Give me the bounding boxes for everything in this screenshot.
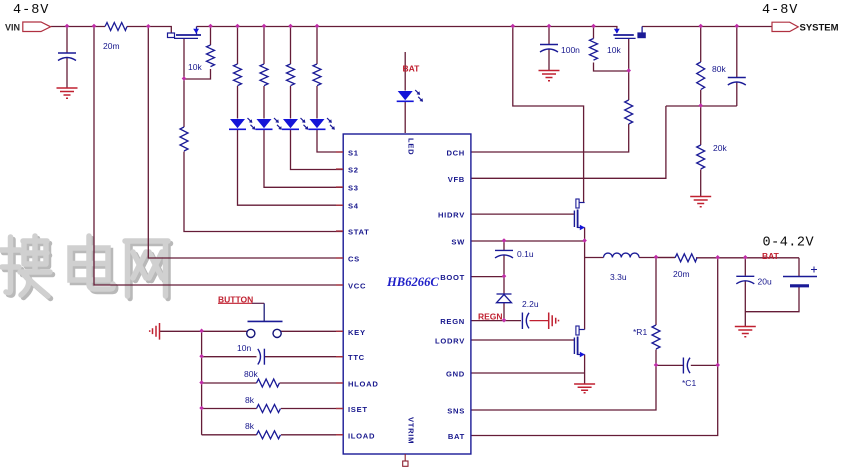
svg-text:REGN: REGN xyxy=(478,312,503,322)
wire BOOT to diode cathode xyxy=(503,277,505,294)
resistor string3 xyxy=(287,64,295,86)
wire HIDRV to high-side FET gate xyxy=(471,213,574,215)
wire cap C5 bottom to FB node xyxy=(736,82,738,106)
wire top rail VIN to 20m resistor xyxy=(51,26,105,28)
capacitor C1 input xyxy=(58,53,76,61)
capacitor 20u output xyxy=(736,276,754,284)
resistor R9 gate-DCH xyxy=(625,100,633,124)
resistor 8k ILOAD xyxy=(257,431,281,439)
resistor 20m sense xyxy=(675,254,697,262)
wire R9 bottom to DCH xyxy=(471,124,629,152)
svg-text:*R1: *R1 xyxy=(633,327,647,337)
svg-text:KEY: KEY xyxy=(348,328,366,337)
wire *R1 top xyxy=(655,258,657,326)
resistor string2 xyxy=(260,64,268,86)
svg-text:REGN: REGN xyxy=(440,317,465,326)
IC xyxy=(336,134,471,466)
resistor string4 xyxy=(313,64,321,86)
svg-text:20u: 20u xyxy=(758,277,772,287)
ground input cap xyxy=(57,88,78,98)
wire HLOAD line xyxy=(202,382,344,384)
svg-text:BAT: BAT xyxy=(403,64,421,74)
LED D3 xyxy=(282,118,308,130)
wire LED string 4 (S1) xyxy=(317,27,343,153)
wire ILOAD line xyxy=(202,434,344,436)
wire low-side FET source to GND line xyxy=(584,355,586,374)
resistor 10k R3 xyxy=(207,45,215,67)
wire rail to 10k R8 xyxy=(593,27,595,39)
svg-text:VCC: VCC xyxy=(348,282,366,291)
wire *R1 bottom to SNS node xyxy=(655,350,657,366)
wire CS vertical from rail xyxy=(148,27,343,259)
svg-text:S4: S4 xyxy=(348,202,359,211)
wire top rail Q1 drain to PMOS Q2 source xyxy=(197,27,617,34)
svg-text:100n: 100n xyxy=(561,45,580,55)
wire BAT net stub to indicator LED to LED pin xyxy=(404,52,406,133)
LED D5 BAT indicator xyxy=(397,90,423,102)
svg-text:ISET: ISET xyxy=(348,405,368,414)
wire output cap bottom to battery bottom xyxy=(745,287,799,312)
wire Q1 gate down to node xyxy=(183,38,185,79)
wire battery top xyxy=(798,258,800,277)
wire 100n cap to ground xyxy=(548,49,550,70)
diode D6 bootstrap xyxy=(497,294,512,303)
button S1 xyxy=(218,303,283,337)
port SYSTEM xyxy=(772,22,798,31)
LED D1 xyxy=(229,118,255,130)
svg-text:BOOT: BOOT xyxy=(440,273,465,282)
wire 0.1u bootstrap cap branch xyxy=(503,241,505,277)
resistor 20k divider bottom xyxy=(697,145,705,169)
svg-text:HIDRV: HIDRV xyxy=(438,211,465,220)
svg-text:0-4.2V: 0-4.2V xyxy=(763,236,815,251)
wire BAT riser xyxy=(471,258,718,436)
pin stubs left xyxy=(336,152,343,435)
svg-text:*C1: *C1 xyxy=(682,378,696,388)
LED D4 xyxy=(309,118,335,130)
svg-text:LED: LED xyxy=(406,138,415,155)
wire rail to high-side FET drain xyxy=(513,27,584,203)
wire REGN line xyxy=(471,320,521,322)
wire input cap branch xyxy=(66,27,68,54)
wire 80k bottom to FB node xyxy=(700,90,702,106)
svg-text:20m: 20m xyxy=(103,41,120,51)
wire LED string 2 (S3) xyxy=(264,27,343,188)
wire LODRV to low-side FET gate xyxy=(471,339,574,341)
svg-text:HB6266C: HB6266C xyxy=(386,275,439,289)
wire SW line xyxy=(471,240,585,242)
svg-text:DCH: DCH xyxy=(446,149,465,158)
svg-text:20k: 20k xyxy=(713,143,727,153)
svg-text:VFB: VFB xyxy=(448,175,465,184)
capacitor *C1 xyxy=(683,358,690,374)
svg-text:0.1u: 0.1u xyxy=(517,249,534,259)
wire rail to 80k divider xyxy=(700,27,702,63)
LED D2 xyxy=(256,118,282,130)
resistor R4 gate-STAT xyxy=(180,127,188,151)
resistor *R1 xyxy=(652,325,660,349)
port VIN xyxy=(23,22,51,32)
wire gate node to series resistor to STAT xyxy=(184,79,343,232)
svg-text:VIN: VIN xyxy=(5,23,20,33)
capacitor 10n TTC xyxy=(258,349,265,365)
wire VFB riser xyxy=(471,106,666,178)
wire FB node horizontal xyxy=(666,105,737,107)
resistor 80k HLOAD xyxy=(257,379,280,387)
svg-text:BUTTON: BUTTON xyxy=(218,295,253,305)
wire button to KEY pin xyxy=(281,330,343,332)
wire FB node to 20k xyxy=(700,106,702,145)
wire LED string 3 (S2) xyxy=(291,27,344,170)
svg-text:2.2u: 2.2u xyxy=(522,299,539,309)
wire inductor node to coil xyxy=(585,257,675,259)
svg-text:HLOAD: HLOAD xyxy=(348,380,379,389)
transistor Q3 NMOS high-side xyxy=(574,199,584,230)
wire top rail 20m to PMOS Q1 source xyxy=(127,27,171,34)
svg-text:ILOAD: ILOAD xyxy=(348,431,375,440)
wire Q2 gate node xyxy=(628,38,630,100)
capacitor 0.1u bootstrap xyxy=(495,250,513,258)
svg-text:S3: S3 xyxy=(348,184,359,193)
svg-text:BAT: BAT xyxy=(762,251,780,261)
wire GND line xyxy=(471,373,585,384)
wire low-side FET drain to inductor node xyxy=(584,258,586,330)
svg-text:20m: 20m xyxy=(673,269,690,279)
wire diode anode to REGN xyxy=(503,303,505,321)
svg-text:SNS: SNS xyxy=(447,407,465,416)
svg-text:LODRV: LODRV xyxy=(435,337,465,346)
wire *C1 left lead xyxy=(656,364,683,366)
wire SNS riser xyxy=(471,365,656,410)
svg-text:10k: 10k xyxy=(188,62,202,72)
resistor 20m input xyxy=(105,23,127,31)
no-connect marker VTRIM xyxy=(403,454,408,466)
svg-text:STAT: STAT xyxy=(348,228,370,237)
wire ISET line xyxy=(202,408,344,410)
wire 20m to output node xyxy=(696,257,799,259)
wire BOOT line xyxy=(471,276,504,278)
svg-text:80k: 80k xyxy=(712,64,726,74)
inductor 3.3u xyxy=(604,253,640,257)
svg-text:GND: GND xyxy=(446,370,465,379)
wire inductor to 20m sense resistor xyxy=(656,257,675,259)
WATERMARK xyxy=(1,236,171,299)
wire input cap to ground xyxy=(66,58,68,88)
svg-text:SYSTEM: SYSTEM xyxy=(800,22,839,33)
wire 10k R8 bottom to Q2 gate node xyxy=(594,63,629,72)
svg-text:3.3u: 3.3u xyxy=(610,272,627,282)
svg-text:4-8V: 4-8V xyxy=(13,3,49,18)
op-amp U1 HB6266C body xyxy=(343,134,471,454)
wire rail to 100n cap xyxy=(548,27,550,45)
wire TTC line xyxy=(202,356,344,358)
wire LED string 1 (S4) xyxy=(238,27,344,206)
svg-text:S2: S2 xyxy=(348,166,359,175)
svg-text:SW: SW xyxy=(451,238,465,247)
wire 20k to ground xyxy=(700,170,702,197)
capacitor 2.2u REGN xyxy=(522,313,529,330)
wire SW to inductor node xyxy=(584,241,586,258)
resistor string1 xyxy=(234,64,242,86)
wire rail to top cap C5 xyxy=(736,27,738,78)
resistor 8k ISET xyxy=(257,405,281,413)
wire *C1 right lead to BAT riser xyxy=(691,364,718,366)
svg-text:8k: 8k xyxy=(245,395,255,405)
resistor 10k R8 xyxy=(590,39,598,61)
sideways ground REGN xyxy=(549,313,559,330)
svg-text:8k: 8k xyxy=(245,421,255,431)
transistor Q2 PMOS xyxy=(613,27,645,39)
svg-text:TTC: TTC xyxy=(348,353,365,362)
svg-text:VTRIM: VTRIM xyxy=(406,417,415,444)
wire 10k R3 bottom to gate node xyxy=(184,27,211,80)
transistor Q1 PMOS xyxy=(168,27,202,39)
transistor Q4 NMOS low-side xyxy=(574,326,584,357)
svg-text:CS: CS xyxy=(348,255,360,264)
battery BT1 xyxy=(783,267,817,286)
wire 2.2u cap to sideways ground xyxy=(530,320,549,322)
wire top rail Q2 drain to SYSTEM port xyxy=(642,26,772,28)
ground output cap xyxy=(735,327,756,337)
svg-text:10k: 10k xyxy=(607,45,621,55)
ground 100n xyxy=(539,71,560,81)
capacitor C5 feedback xyxy=(728,78,746,86)
wire KEY line ground to button xyxy=(160,330,247,332)
svg-text:80k: 80k xyxy=(244,369,258,379)
ground 20k xyxy=(690,197,711,207)
capacitor 100n xyxy=(540,45,558,53)
ground power stage xyxy=(574,384,595,393)
wire output cap 20u branch xyxy=(744,258,746,326)
svg-text:4-8V: 4-8V xyxy=(762,3,798,18)
svg-text:10n: 10n xyxy=(237,343,251,353)
sideways ground KEY xyxy=(150,323,160,340)
wire VCC vertical from rail xyxy=(94,27,343,286)
svg-text:S1: S1 xyxy=(348,149,359,158)
svg-text:BAT: BAT xyxy=(448,432,465,441)
wire option bus vertical xyxy=(201,331,203,435)
resistor 80k divider top xyxy=(697,62,705,90)
wire high-side FET source to SW xyxy=(584,228,586,242)
